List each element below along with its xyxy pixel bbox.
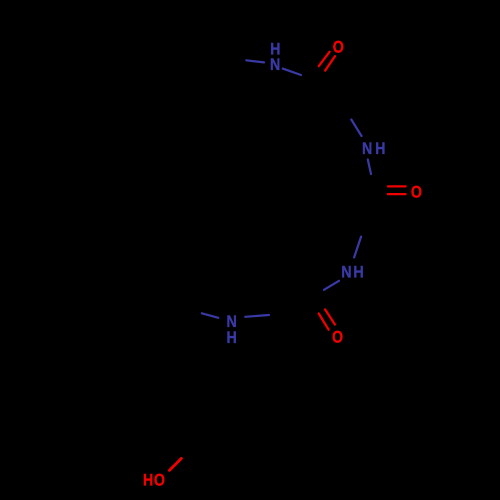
svg-text:H: H: [353, 263, 363, 282]
svg-text:N: N: [270, 55, 280, 74]
svg-text:O: O: [332, 327, 343, 346]
svg-text:O: O: [411, 182, 422, 201]
svg-text:H: H: [375, 139, 385, 158]
svg-text:O: O: [333, 37, 344, 56]
svg-text:O: O: [154, 470, 165, 489]
svg-text:H: H: [143, 470, 153, 489]
svg-text:H: H: [227, 328, 237, 347]
svg-text:N: N: [341, 262, 351, 281]
svg-text:N: N: [362, 139, 372, 158]
